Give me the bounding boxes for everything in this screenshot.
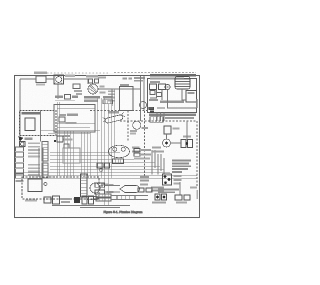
drain valve V1 bbox=[117, 186, 140, 200]
door switch pair bbox=[175, 195, 190, 204]
machine control box bbox=[54, 105, 95, 133]
overload protector OL1 bbox=[163, 139, 171, 147]
terminal block TB4 striped bbox=[150, 117, 163, 123]
aux contact box bbox=[150, 91, 155, 95]
compressor motor M2 bbox=[130, 121, 148, 134]
high voltage compartment box bbox=[148, 74, 197, 112]
transformer T1 bbox=[175, 77, 190, 90]
border frame bbox=[15, 76, 200, 218]
wire overload to capacitor bbox=[171, 142, 182, 144]
relay rows right bbox=[134, 149, 151, 160]
wires below high voltage box bbox=[157, 113, 164, 122]
junction dark cluster bbox=[149, 107, 155, 113]
buzzer B2 bbox=[162, 194, 167, 200]
wash pump contact mark bbox=[44, 183, 47, 186]
wire motor to bus bbox=[98, 89, 112, 106]
switch bank S1-S6 bbox=[16, 147, 24, 182]
vertical wiring bus bbox=[57, 89, 115, 205]
margin tick text right upper bbox=[196, 99, 198, 108]
relay module box bbox=[186, 91, 197, 103]
labels top middle bbox=[120, 77, 145, 86]
note rows mid-right bbox=[158, 189, 179, 194]
label terminal block TB3 bbox=[103, 96, 113, 104]
relay cluster K4 bbox=[54, 135, 73, 148]
label fuse F1 bbox=[150, 81, 160, 83]
circuit breaker CB1 bbox=[34, 72, 47, 86]
scan noise bbox=[14, 73, 200, 219]
label TB2 bbox=[65, 95, 79, 100]
label under buzzers bbox=[152, 202, 166, 204]
wire left vertical feed bbox=[19, 79, 21, 136]
labels right of float switch bbox=[132, 147, 140, 153]
wire number labels left of bus bbox=[108, 91, 115, 102]
wire switch drop bbox=[179, 182, 181, 195]
label rows near float switch bbox=[140, 147, 164, 186]
heater element labels bottom bbox=[96, 194, 111, 201]
fuse block F2 bbox=[159, 84, 166, 90]
label bottom right corner bbox=[190, 187, 197, 189]
relay K3 bbox=[164, 126, 180, 134]
machine compartment boundary bbox=[90, 111, 197, 187]
contactor K2 bbox=[165, 84, 170, 89]
svg-text:Figure 5-1. Pinwise Diagram: Figure 5-1. Pinwise Diagram bbox=[103, 210, 142, 214]
bus drops right bbox=[152, 150, 164, 175]
buzzer B1 bbox=[155, 194, 160, 200]
terminal tap TB7 bbox=[59, 114, 66, 122]
timer module A1 bbox=[25, 118, 35, 131]
base compartment box bbox=[22, 177, 99, 199]
wire K1 to fan motor bbox=[64, 79, 89, 84]
solenoid L1 bbox=[102, 111, 125, 124]
pressure switch PS1 bbox=[163, 174, 182, 185]
bleed-through text above frame bbox=[40, 72, 196, 74]
wire strip feed bbox=[40, 110, 42, 142]
relay coil box bbox=[73, 84, 80, 89]
label under relay coil bbox=[74, 77, 106, 96]
horizontal wiring bus bbox=[16, 109, 197, 179]
aux contact box 2 bbox=[157, 93, 162, 97]
legend text block bbox=[172, 160, 191, 174]
wire contactor drop bbox=[57, 85, 59, 100]
float switch FS1 oval bbox=[109, 145, 130, 163]
label ground bbox=[25, 138, 33, 140]
wires thermostat to valve bbox=[105, 186, 121, 193]
label wire gauge bbox=[65, 75, 75, 77]
margin tick text right lower bbox=[196, 190, 198, 199]
wire compressor drop bbox=[166, 134, 168, 139]
wires heater to right cluster bbox=[111, 196, 148, 200]
fan motor M1 bbox=[86, 75, 106, 94]
terminal strip TB8 bbox=[81, 174, 88, 197]
pilot lamp DS2 bbox=[97, 163, 110, 171]
indicator lamp DS1 bbox=[20, 142, 26, 147]
terminal strip TB5 bbox=[42, 142, 48, 162]
label row in box bottom bbox=[149, 99, 158, 101]
wire top feed bbox=[20, 78, 36, 80]
label text block machine bbox=[84, 96, 100, 102]
junction box JB1 bbox=[63, 148, 80, 163]
wire CB1 to K1 bbox=[46, 78, 54, 80]
label TB1 bbox=[55, 96, 75, 101]
terminal boxes mid-right bbox=[138, 188, 152, 192]
ground arrow bbox=[19, 136, 24, 142]
capacitor C1 bbox=[181, 136, 193, 148]
relay labels mid-right bbox=[140, 176, 164, 192]
contactor K1 bbox=[54, 75, 64, 85]
thermostat boxes bbox=[95, 183, 114, 194]
condenser junction box bbox=[120, 87, 134, 111]
pilot device circle bbox=[140, 102, 147, 109]
terminal strip TB6 bbox=[42, 163, 48, 178]
pump motor M3 bbox=[87, 183, 109, 200]
wires inside high voltage box bbox=[148, 89, 196, 108]
wire capacitor feed bbox=[186, 121, 188, 140]
label control transformer bbox=[160, 101, 184, 103]
bottom cluster selector switch bbox=[44, 196, 70, 204]
fuse block F1 bbox=[150, 84, 157, 90]
wash pump box bbox=[28, 179, 42, 192]
note lines under box bbox=[149, 114, 196, 116]
bottom wire run bbox=[52, 206, 130, 208]
wire labels left of strips bbox=[28, 143, 40, 176]
wire motor bus east bbox=[112, 88, 141, 90]
control panel box bbox=[20, 111, 57, 136]
wire feed to high voltage box bbox=[141, 76, 145, 121]
label under base box bbox=[25, 200, 37, 202]
wire pair mid-left vertical bbox=[39, 148, 43, 177]
power entry block bbox=[74, 196, 94, 204]
